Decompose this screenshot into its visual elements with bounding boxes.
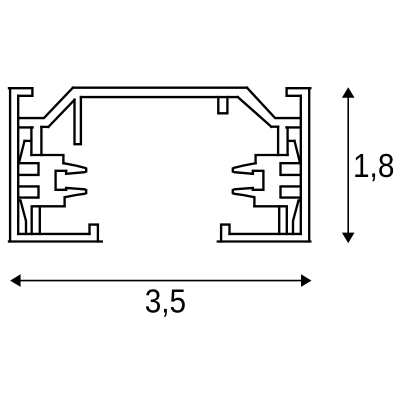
- left insert tooth 1: [63, 163, 86, 174]
- top-left edge: [9, 88, 32, 96]
- left insert body bottom: [32, 206, 65, 234]
- svg-text:1,8: 1,8: [353, 147, 394, 184]
- right spur rib: [218, 97, 227, 113]
- left inner wall: [17, 96, 19, 234]
- left insert contact window: [56, 171, 67, 190]
- top plateau inner: [81, 96, 238, 98]
- horizontal dimension arrow left: [10, 274, 21, 287]
- right flange box 2: [281, 186, 301, 197]
- left lean diagonal bottom: [18, 200, 26, 234]
- left shoulder inner diagonal: [48, 100, 74, 127]
- right inner wall: [300, 96, 302, 234]
- left floor: [18, 233, 89, 235]
- right cap vertical: [286, 127, 288, 155]
- right shelf to diagonal: [271, 126, 278, 128]
- right outer wall: [308, 88, 310, 241]
- top-right edge: [287, 88, 311, 96]
- left insert inner vertical: [39, 206, 41, 234]
- left shelf to wall: [18, 126, 32, 128]
- right insert body top: [256, 155, 288, 163]
- svg-text:3,5: 3,5: [145, 283, 186, 320]
- right S1 ledge: [288, 140, 295, 142]
- left insert tooth 2: [65, 188, 87, 206]
- left outer wall: [9, 88, 11, 241]
- bottom outer edge left: [9, 240, 102, 242]
- left shelf to diagonal: [41, 126, 48, 128]
- bottom outer edge right: [218, 240, 310, 242]
- right insert tooth 2: [233, 188, 255, 206]
- top plateau outer: [73, 87, 247, 89]
- right descender: [277, 127, 279, 155]
- right shoulder outer: [247, 88, 301, 118]
- right shelf to wall: [286, 126, 300, 128]
- left cap vertical: [30, 127, 32, 155]
- right insert contact window: [253, 171, 264, 190]
- right insert body bottom: [254, 206, 286, 234]
- horizontal dimension line 3,5: [20, 280, 303, 282]
- right floor: [230, 233, 301, 235]
- right shoulder inner diagonal: [238, 97, 271, 127]
- right flange box 1: [281, 163, 301, 175]
- left flange box 2: [18, 186, 38, 197]
- horizontal dimension arrow right: [301, 274, 312, 287]
- right insert inner vertical: [278, 206, 280, 234]
- vertical dimension arrow bottom: [342, 233, 355, 244]
- right floor hook: [221, 225, 229, 242]
- left flange box 1: [18, 163, 38, 175]
- vertical dimension arrow top: [342, 87, 355, 98]
- left shoulder outer: [18, 88, 73, 118]
- left lean diagonal top: [19, 141, 25, 163]
- right lean diagonal top: [295, 141, 301, 163]
- left floor hook: [90, 225, 98, 242]
- left S1 ledge: [25, 140, 32, 142]
- right lean diagonal bottom: [293, 200, 301, 234]
- left insert body top: [31, 155, 63, 163]
- right insert tooth 1: [233, 163, 256, 174]
- left descender: [40, 127, 42, 155]
- left hanging rib: [75, 97, 81, 144]
- vertical dimension line 1,8: [347, 97, 349, 235]
